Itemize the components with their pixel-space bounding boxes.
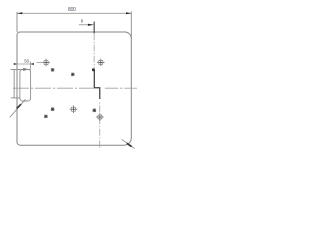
hole symbol B2 (large, circle+crosshair) bbox=[97, 59, 104, 66]
leader line with arrow at slot top bbox=[11, 68, 31, 70]
horizontal centerline right of joggle bbox=[105, 87, 137, 89]
spot mark s1 (small star) bbox=[51, 68, 55, 72]
horizontal centerline (dash-dot) bbox=[13, 87, 94, 89]
dim 8: arrowhead bbox=[88, 24, 94, 26]
joggle step (thick) bbox=[94, 70, 99, 99]
spot mark s4 (small star) bbox=[92, 108, 96, 112]
flange hidden edge (short vertical at x=14.15) bbox=[13, 69, 15, 98]
vertical centerline upper (dash-dot) bbox=[93, 34, 95, 68]
dim 50: right arrowhead (outside) bbox=[31, 63, 34, 65]
leader arrowhead bbox=[23, 68, 29, 70]
dim 50: extension line (slot right edge up) bbox=[30, 62, 32, 70]
short horizontal line at slot bottom-left bbox=[11, 97, 20, 99]
dim 800: dimension line bbox=[17, 12, 131, 14]
svg-text:800: 800 bbox=[68, 7, 76, 13]
dim 50: left arrowhead (outside) bbox=[14, 63, 17, 65]
dim 800: extension line left bbox=[16, 12, 18, 32]
seam edge top (extension of joggle) bbox=[93, 22, 95, 34]
dim 800: left arrowhead bbox=[17, 12, 22, 14]
dim 800: extension line right bbox=[130, 11, 132, 38]
weld diagonal bottom-right (thick) bbox=[127, 143, 132, 146]
vertical centerline lower (dash-dot) bbox=[99, 102, 101, 148]
svg-text:8: 8 bbox=[81, 19, 84, 24]
dim 800: right arrowhead bbox=[126, 12, 131, 14]
hole symbol B3 (large, circle+crosshair) bbox=[70, 106, 77, 113]
slot (rounded rectangle cutout) bbox=[20, 69, 31, 101]
spot mark s5 (small star) bbox=[44, 115, 48, 119]
svg-text:50: 50 bbox=[24, 58, 29, 63]
hole symbol B1 (large, circle+crosshair) bbox=[42, 59, 49, 66]
hole symbol B4 (large, circle+crosshair) bbox=[96, 113, 103, 120]
weld diagonal left (thin) bbox=[10, 99, 26, 117]
spot mark s3 (small star) bbox=[51, 107, 55, 111]
junction dot on centerline bbox=[92, 68, 95, 71]
spot mark s2 (small star) bbox=[71, 73, 75, 77]
plate outline bbox=[17, 32, 131, 145]
weld diagonal left (thick) bbox=[17, 104, 21, 108]
dim 8: dimension line bbox=[79, 24, 93, 26]
dim 50: dimension line bbox=[14, 63, 34, 65]
stub line to hole B1 bbox=[37, 62, 43, 64]
weld diagonal bottom-right (thin) bbox=[122, 139, 135, 148]
